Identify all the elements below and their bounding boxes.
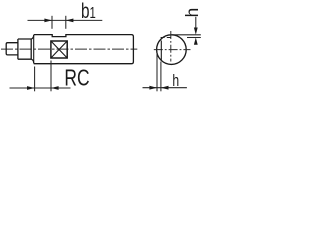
RC extension line right [50,61,52,92]
RC arrow right [51,86,59,90]
shaft tip [6,43,18,55]
top h extension line lower [187,37,201,39]
svg-text:h: h [182,8,202,18]
shoulder fillet top [31,35,34,39]
b1 arrow right [66,19,74,23]
bottom h arrow right [161,86,169,90]
svg-text:b1: b1 [81,0,96,23]
shoulder edge line [33,35,35,63]
RC arrow left [27,86,35,90]
b1 extension line left [51,16,53,29]
flat surface symbol (crossed square) [51,41,67,58]
centerline side view [1,48,137,50]
svg-text:h: h [172,72,179,90]
top h arrow up [194,38,198,45]
shaft body outline with groove b1 [34,35,134,64]
bottom h dimension line [143,87,187,89]
end view horizontal centerline [154,49,191,51]
top h arrow down [194,28,198,35]
top h dimension line [195,17,197,29]
shoulder fillet bottom [31,59,34,63]
bottom h extension line right [160,62,162,92]
RC extension line left [34,67,36,92]
RC dimension line [10,87,71,89]
left flat chord [160,41,162,61]
end view vertical centerline [170,31,172,62]
bottom h extension line left [156,51,158,91]
top h extension line upper [172,34,201,36]
b1 arrow left [44,19,52,23]
bottom h arrow left [149,86,157,90]
end view circle [157,35,187,65]
b1 dimension line [28,19,103,21]
svg-text:RC: RC [64,65,89,91]
b1 extension line right [65,16,67,29]
top flat chord (dashed) [161,37,173,39]
collar step [18,39,31,59]
